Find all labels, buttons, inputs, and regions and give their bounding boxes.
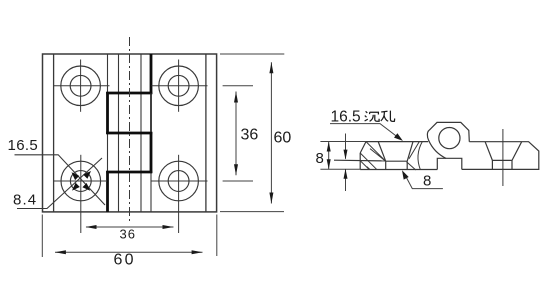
- left leaf outline: [360, 142, 437, 170]
- dimension texts: [8, 127, 292, 269]
- knuckle joint line 1 (thick): [106, 92, 152, 95]
- knuckle joint line 3 (thick): [106, 171, 152, 174]
- hole top-left: center cross: [54, 85, 110, 87]
- hole top-right: inner circle: [168, 75, 189, 96]
- hinge front view: leaf plate outline: [43, 54, 217, 212]
- label 8.4 leader line: [17, 158, 102, 209]
- knuckle outer arc: [427, 130, 446, 158]
- right leaf inner edge line: [205, 54, 207, 212]
- hole top-right: counterbore outer circle: [159, 66, 199, 106]
- label 16.5 leader line: [15, 155, 106, 205]
- hole top-left: inner circle: [70, 75, 91, 96]
- hole bottom-left: counterbore outer circle: [61, 161, 101, 201]
- knuckle 2 visible edge (thick left): [106, 92, 109, 134]
- knuckle 1 visible edge (thick right): [150, 54, 153, 94]
- hole bottom-left: center cross: [54, 180, 108, 182]
- dim 8 thickness line: [328, 142, 330, 170]
- label 8 bottom leader: [404, 173, 443, 189]
- dim 60 right line: [270, 62, 272, 203]
- center line through right hole: [502, 129, 504, 186]
- dim 60 bottom line: [55, 251, 203, 253]
- hole bottom-right: center cross: [152, 180, 208, 182]
- label 16.5 counterbore leader: [330, 124, 400, 139]
- hole top-right: center cross: [152, 85, 208, 87]
- dim right: extension lines: [220, 53, 284, 55]
- svg-text:16.5: 16.5: [8, 137, 39, 154]
- knuckle joint line 2 (thick): [106, 132, 152, 135]
- hole top-left: counterbore outer circle: [61, 66, 101, 106]
- hinge pin line left: [118, 54, 120, 212]
- dimensions group: [42, 54, 284, 257]
- hole bottom-right: counterbore outer circle: [159, 161, 199, 201]
- dim 36 bottom: extension uses hole center lines: [86, 226, 174, 228]
- hinge barrel outer line right (thin): [150, 54, 152, 212]
- svg-text:8.4: 8.4: [13, 192, 37, 209]
- knuckle outline: [429, 122, 469, 141]
- svg-text:60: 60: [114, 252, 136, 269]
- dimension arrowheads: [55, 62, 274, 254]
- small dim lower arrow line: [345, 169, 347, 191]
- hinge pin circle: [439, 128, 460, 149]
- leaf curl curve: [418, 142, 422, 170]
- right leaf outline: [462, 142, 539, 170]
- hinge barrel outer line left (thin): [107, 54, 109, 212]
- diameter arrows on bottom-left hole: [72, 171, 92, 191]
- hinge pin line right: [140, 54, 142, 212]
- ext line bottom surface: [320, 168, 360, 170]
- through hole rectangle right leaf: [492, 160, 512, 169]
- dim 36 right line: [235, 92, 237, 176]
- dim 60 bottom extension lines: [41, 215, 43, 258]
- svg-text:8: 8: [316, 150, 324, 167]
- svg-text:16.5: 16.5: [331, 109, 361, 126]
- hinge pin center line (dash-dot): [129, 37, 131, 222]
- hatching left block: [360, 142, 386, 170]
- chinese 沉孔 glyph strokes: [365, 111, 395, 122]
- left leaf inner edge line: [53, 54, 55, 212]
- notch under knuckle: [437, 158, 462, 169]
- knuckle 3 visible edge (thick right): [150, 132, 153, 173]
- hole bottom-right: inner circle: [168, 171, 189, 192]
- svg-text:60: 60: [274, 130, 292, 147]
- knuckle 2 right edge (medium): [150, 93, 152, 133]
- small dim upper arrow line: [345, 134, 347, 159]
- side view dimensions: [320, 124, 443, 191]
- svg-text:8: 8: [423, 173, 431, 190]
- svg-text:36: 36: [120, 227, 136, 242]
- through hole rectangle left leaf: [386, 161, 408, 169]
- counterbore trapezoid left leaf: [378, 142, 413, 162]
- hatching right block: [407, 142, 420, 170]
- knuckle 4 visible edge (thick left): [106, 171, 109, 212]
- counterbore trapezoid right leaf: [485, 142, 522, 161]
- counterbore depth line left leaf: [334, 159, 386, 162]
- ext line top surface: [320, 141, 366, 143]
- hole bottom-left: inner circle: [70, 171, 91, 192]
- svg-text:36: 36: [241, 127, 259, 144]
